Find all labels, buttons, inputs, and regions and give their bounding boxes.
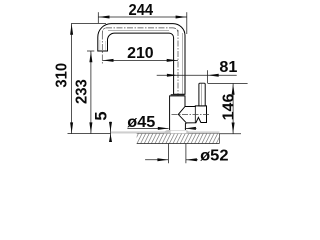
dim 146: dimension line: [232, 84, 234, 134]
dim 146: top arrow: [232, 84, 235, 95]
dim 233: dimension line: [90, 51, 92, 133]
dim ø52: left arrow (points right): [157, 158, 168, 161]
svg-text:244: 244: [129, 2, 154, 19]
dim 244: right arrow: [176, 16, 187, 19]
svg-text:81: 81: [219, 59, 237, 76]
countertop 5mm plate band (gray): [111, 131, 220, 133]
svg-text:146: 146: [221, 93, 238, 120]
dim ø45: right arrow (points left at body edge): [185, 127, 196, 130]
dim 310: top extension line: [71, 23, 106, 25]
dim 146: top extension line: [208, 82, 248, 84]
dim 5: lower arrow (up, to surface): [109, 134, 112, 142]
dim 244: extension line right: [186, 12, 188, 34]
svg-text:310: 310: [53, 63, 70, 88]
dim 310: dimension line: [71, 23, 73, 133]
dim ø52: right tail: [186, 159, 198, 161]
riser inner highlight line: [181, 33, 183, 94]
svg-text:ø45: ø45: [127, 114, 155, 131]
dim ø52: right hole edge extension line: [185, 144, 187, 164]
dim ø52: left hole edge extension line: [167, 144, 169, 164]
spout inner highlight line (bottom of horizontal run): [108, 29, 169, 31]
countertop surface extension line (right of hatch): [219, 133, 241, 135]
outlet centerline: [101, 34, 103, 64]
block separator line: [194, 106, 196, 123]
collar ring: [171, 94, 185, 95]
dim 210: dimension line: [102, 59, 178, 61]
dim 210: right arrow: [167, 59, 178, 62]
dim ø45: right tail: [185, 127, 197, 129]
valve horizontal centerline: [172, 113, 211, 115]
dim 310: bottom arrow: [70, 122, 73, 133]
lever handle bar: [199, 83, 205, 106]
spout tube outline (outlet, horizontal run, right elbow, riser): [98, 24, 185, 95]
dim ø45: leader line: [127, 127, 168, 129]
faucet body with wedge notch: [170, 96, 187, 130]
dim ø52: right arrow (points left): [186, 158, 197, 161]
dim 81: dimension line: [157, 74, 237, 76]
base flange (gray dome): [164, 130, 189, 134]
dim ø45: left arrow (points right at body edge): [158, 127, 169, 130]
dim 5: upper arrow (down, to plate top): [109, 122, 112, 132]
dim 81: left arrow (points right at riser CL): [167, 74, 178, 77]
dim 244: extension line left: [97, 12, 99, 23]
dim 5: vertical line: [110, 122, 112, 142]
base flange white center: [171, 131, 187, 134]
dim 233: bottom arrow: [89, 122, 92, 133]
outlet tube inner lines: [99, 40, 101, 51]
dim 310: top arrow: [70, 24, 73, 35]
countertop hatched section: [137, 134, 220, 144]
dim 81: right extension line: [207, 70, 209, 83]
dim 81: right arrow (points left at lever edge): [208, 74, 219, 77]
dim ø52: dimension line: [145, 159, 168, 161]
dim 244: dimension line: [98, 16, 187, 18]
dim 233: top extension line: [87, 50, 94, 52]
dim 233: top arrow: [89, 51, 92, 62]
svg-text:ø52: ø52: [200, 148, 228, 165]
dim 244: left arrow: [99, 16, 110, 19]
svg-text:210: 210: [127, 45, 154, 62]
dim 210: left arrow: [103, 59, 114, 62]
riser centerline: [177, 30, 179, 133]
centerline bend arcs: [102, 28, 106, 34]
lever cartridge block: [185, 106, 207, 123]
horizontal pipe centerline: [106, 27, 173, 29]
countertop surface extension line (left of plate): [68, 133, 111, 135]
lever bar inner line: [200, 84, 202, 106]
svg-text:5: 5: [93, 111, 111, 120]
dim 146: bottom arrow: [232, 123, 235, 134]
svg-text:233: 233: [73, 79, 90, 104]
